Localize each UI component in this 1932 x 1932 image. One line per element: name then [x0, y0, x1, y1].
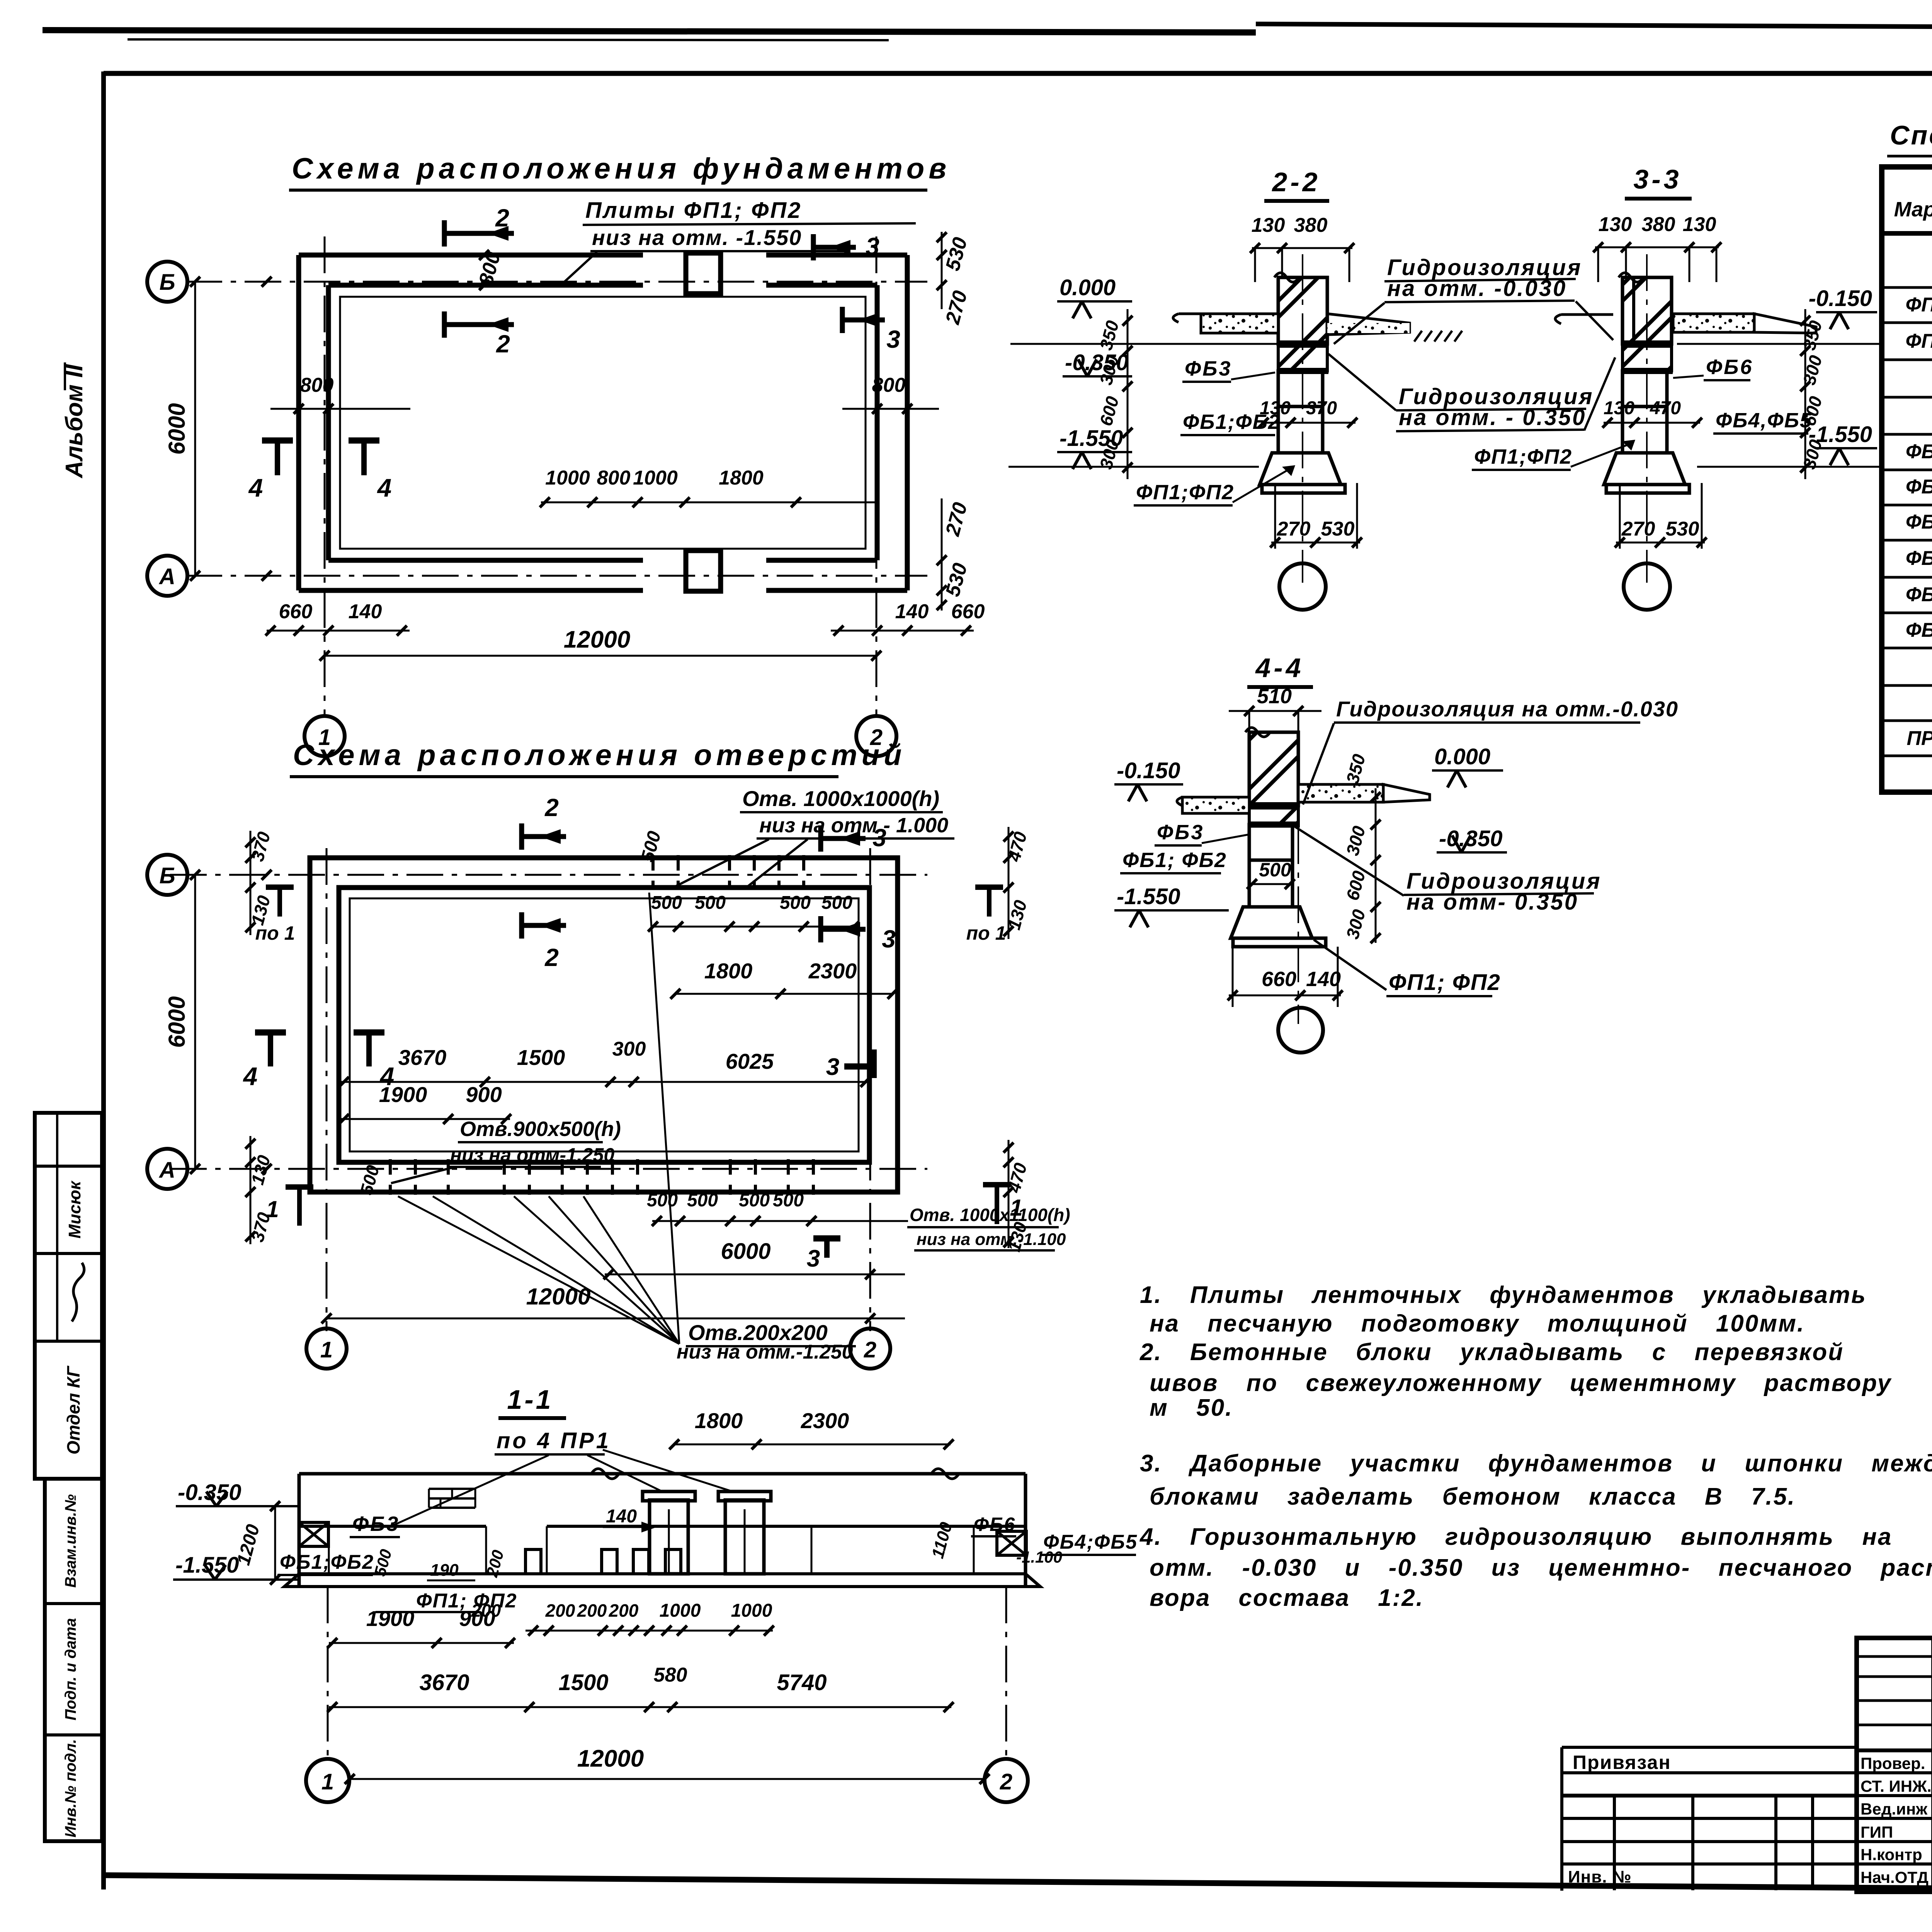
svg-text:Инв. №: Инв. № — [1568, 1867, 1632, 1886]
svg-text:ФП2: ФП2 — [1906, 330, 1932, 352]
svg-text:по 4 ПР1: по 4 ПР1 — [497, 1428, 611, 1453]
svg-text:0.000: 0.000 — [1434, 744, 1490, 769]
svg-text:500: 500 — [739, 1190, 770, 1211]
svg-text:Гидроизоляция на отм.-0.030: Гидроизоляция на отм.-0.030 — [1336, 697, 1679, 721]
svg-text:2: 2 — [544, 944, 559, 971]
svg-text:1900: 1900 — [366, 1606, 415, 1631]
svg-text:130: 130 — [1599, 213, 1632, 236]
svg-text:380: 380 — [1642, 213, 1675, 236]
svg-text:0.000: 0.000 — [1060, 275, 1116, 300]
svg-text:4: 4 — [377, 473, 392, 502]
svg-text:2300: 2300 — [808, 959, 857, 983]
svg-text:500: 500 — [1259, 859, 1291, 881]
svg-text:4. Горизонтальную гидроизоля: 4. Горизонтальную гидроизоляцию выполнят… — [1139, 1524, 1892, 1550]
svg-text:500: 500 — [773, 1190, 804, 1211]
svg-text:м 50.: м 50. — [1150, 1395, 1233, 1421]
svg-text:СТ. ИНЖ.: СТ. ИНЖ. — [1861, 1777, 1932, 1795]
svg-text:Б: Б — [159, 270, 175, 295]
svg-text:530: 530 — [1666, 518, 1699, 540]
svg-text:3: 3 — [872, 824, 886, 852]
svg-text:1800: 1800 — [719, 467, 764, 489]
svg-text:ГИП: ГИП — [1861, 1823, 1893, 1841]
svg-text:130: 130 — [1260, 398, 1291, 418]
svg-text:3: 3 — [882, 925, 896, 953]
svg-text:12000: 12000 — [577, 1745, 644, 1772]
svg-text:1500: 1500 — [558, 1670, 608, 1695]
svg-text:-0.350: -0.350 — [178, 1480, 241, 1505]
svg-text:140: 140 — [895, 600, 929, 623]
svg-text:ФБ4;ФБ5: ФБ4;ФБ5 — [1043, 1531, 1138, 1553]
svg-text:6000: 6000 — [164, 403, 190, 454]
svg-text:Отв.900х500(h): Отв.900х500(h) — [460, 1117, 621, 1141]
svg-text:Схема расположения фундаментов: Схема расположения фундаментов — [292, 152, 951, 185]
svg-text:низ на отм-1.250: низ на отм-1.250 — [450, 1144, 614, 1166]
svg-text:ФП1: ФП1 — [1906, 294, 1932, 316]
svg-text:2: 2 — [496, 330, 510, 358]
svg-text:660: 660 — [1262, 968, 1296, 991]
svg-text:3: 3 — [886, 325, 900, 353]
svg-text:500: 500 — [780, 893, 811, 913]
svg-text:500: 500 — [821, 893, 852, 913]
svg-text:800: 800 — [597, 467, 631, 489]
svg-text:А: А — [158, 564, 175, 589]
svg-text:1000: 1000 — [660, 1600, 701, 1621]
svg-text:2: 2 — [544, 794, 559, 821]
svg-text:300: 300 — [612, 1038, 646, 1060]
svg-text:по 1: по 1 — [966, 922, 1006, 944]
svg-text:1: 1 — [320, 1337, 333, 1362]
svg-text:ФБ1;ФБ2: ФБ1;ФБ2 — [280, 1551, 374, 1573]
svg-text:А: А — [158, 1158, 175, 1183]
svg-text:1000: 1000 — [731, 1600, 772, 1621]
svg-text:380: 380 — [1294, 214, 1328, 236]
svg-text:200: 200 — [545, 1600, 575, 1621]
svg-text:низ на отм.-1.100: низ на отм.-1.100 — [917, 1230, 1066, 1249]
svg-text:900: 900 — [466, 1082, 502, 1107]
svg-text:низ на отм. -1.550: низ на отм. -1.550 — [592, 225, 802, 250]
svg-text:ФБ3: ФБ3 — [1157, 821, 1204, 844]
svg-text:5740: 5740 — [777, 1670, 827, 1695]
svg-text:370: 370 — [1306, 398, 1337, 418]
svg-text:130: 130 — [1683, 213, 1716, 236]
svg-text:3670: 3670 — [398, 1045, 447, 1070]
svg-text:ФБ3: ФБ3 — [1185, 357, 1232, 380]
svg-text:4: 4 — [248, 473, 263, 502]
svg-text:130: 130 — [1604, 398, 1634, 418]
svg-text:-1.550: -1.550 — [175, 1553, 239, 1578]
svg-text:-1.550: -1.550 — [1117, 884, 1180, 909]
svg-text:4: 4 — [379, 1062, 395, 1090]
svg-text:-1.550: -1.550 — [1060, 426, 1123, 451]
svg-text:470: 470 — [1650, 398, 1681, 418]
svg-text:12000: 12000 — [564, 626, 630, 653]
svg-text:низ на отм.-1.250: низ на отм.-1.250 — [677, 1341, 853, 1363]
svg-text:швов по свежеуложенному цем: швов по свежеуложенному цементному раств… — [1150, 1370, 1892, 1396]
svg-text:ФБ3: ФБ3 — [352, 1512, 400, 1536]
svg-text:500: 500 — [647, 1190, 678, 1211]
svg-text:ФБ6: ФБ6 — [1706, 355, 1753, 379]
svg-text:1000: 1000 — [633, 467, 678, 489]
svg-text:1. Плиты ленточных фундаме: 1. Плиты ленточных фундаментов укладыват… — [1140, 1282, 1867, 1308]
svg-text:2: 2 — [495, 204, 509, 232]
svg-text:Нач.ОТД: Нач.ОТД — [1861, 1868, 1929, 1886]
svg-text:1500: 1500 — [517, 1045, 565, 1070]
svg-text:Отдел КГ: Отдел КГ — [63, 1366, 83, 1454]
svg-text:3670: 3670 — [419, 1670, 469, 1695]
svg-text:2300: 2300 — [801, 1408, 849, 1433]
svg-text:800: 800 — [872, 374, 906, 396]
svg-text:Взам.инв.№: Взам.инв.№ — [62, 1494, 79, 1588]
svg-text:-0.350: -0.350 — [1439, 826, 1502, 851]
svg-text:3: 3 — [866, 233, 879, 260]
svg-text:Подп. и дата: Подп. и дата — [62, 1618, 79, 1721]
svg-text:3-3: 3-3 — [1633, 164, 1682, 194]
svg-text:ФП1;ФП2: ФП1;ФП2 — [1136, 481, 1234, 504]
svg-text:1: 1 — [321, 1769, 334, 1794]
svg-text:ФП1; ФП2: ФП1; ФП2 — [1389, 970, 1501, 995]
svg-text:Спецификация к схеме распол: Спецификация к схеме расположения фундам… — [1890, 120, 1932, 150]
svg-text:на песчаную подготовку толщ: на песчаную подготовку толщиной 100мм. — [1150, 1310, 1805, 1337]
svg-text:2-2: 2-2 — [1271, 167, 1320, 197]
svg-text:Привязан: Привязан — [1573, 1752, 1671, 1773]
svg-text:Плиты ФП1; ФП2: Плиты ФП1; ФП2 — [585, 198, 802, 223]
svg-text:140: 140 — [1306, 968, 1341, 991]
svg-text:2: 2 — [1000, 1769, 1012, 1794]
svg-text:500: 500 — [687, 1190, 718, 1211]
svg-text:ФБ6: ФБ6 — [974, 1514, 1015, 1535]
svg-text:Отв. 1000х1000(h): Отв. 1000х1000(h) — [742, 786, 939, 811]
svg-text:130: 130 — [1252, 214, 1285, 236]
svg-text:12000: 12000 — [526, 1284, 591, 1310]
svg-text:270: 270 — [1621, 518, 1655, 540]
svg-text:Мисюк: Мисюк — [65, 1180, 84, 1238]
svg-text:580: 580 — [654, 1664, 687, 1686]
svg-text:-0.150: -0.150 — [1809, 286, 1872, 311]
svg-text:ФБ6: ФБ6 — [1906, 619, 1932, 641]
svg-text:140: 140 — [606, 1506, 637, 1527]
svg-text:6000: 6000 — [164, 996, 190, 1048]
svg-text:510: 510 — [1257, 685, 1292, 708]
svg-text:270: 270 — [1277, 518, 1311, 540]
svg-text:Марка: Марка — [1894, 198, 1932, 221]
svg-text:ПР1: ПР1 — [1906, 727, 1932, 750]
svg-text:1: 1 — [1010, 1195, 1022, 1221]
svg-text:1800: 1800 — [704, 959, 753, 983]
svg-text:200: 200 — [577, 1600, 607, 1621]
svg-text:ФБ3: ФБ3 — [1906, 511, 1932, 533]
svg-text:Н.контр: Н.контр — [1861, 1845, 1922, 1864]
svg-text:ФБ4,ФБ5: ФБ4,ФБ5 — [1716, 409, 1812, 432]
svg-text:3. Даборные участки фундамен: 3. Даборные участки фундаментов и шпонки… — [1140, 1450, 1932, 1477]
svg-text:по 1: по 1 — [255, 922, 295, 944]
svg-text:ФБ1; ФБ2: ФБ1; ФБ2 — [1122, 849, 1227, 872]
svg-text:1800: 1800 — [695, 1408, 743, 1433]
svg-text:6025: 6025 — [726, 1049, 774, 1073]
svg-text:660: 660 — [279, 600, 313, 623]
svg-text:3: 3 — [807, 1245, 820, 1272]
svg-text:вора состава 1:2.: вора состава 1:2. — [1150, 1585, 1424, 1611]
svg-text:200: 200 — [609, 1600, 639, 1621]
svg-text:-0.350: -0.350 — [1065, 350, 1128, 375]
svg-text:660: 660 — [951, 600, 985, 623]
svg-text:ФБ5: ФБ5 — [1906, 583, 1932, 606]
svg-text:2. Бетонные блоки укладывать: 2. Бетонные блоки укладывать с перевязко… — [1139, 1339, 1844, 1366]
svg-text:блоками заделать бетоном кл: блоками заделать бетоном класса В 7.5. — [1150, 1483, 1796, 1510]
svg-text:3: 3 — [826, 1054, 839, 1080]
svg-text:500: 500 — [695, 893, 726, 913]
svg-text:Провер.: Провер. — [1861, 1754, 1925, 1772]
svg-text:Инв.№ подл.: Инв.№ подл. — [62, 1739, 79, 1838]
svg-text:ФБ1: ФБ1 — [1906, 440, 1932, 463]
svg-text:-0.150: -0.150 — [1117, 758, 1180, 783]
svg-text:200: 200 — [471, 1600, 501, 1621]
svg-text:ФП1;ФП2: ФП1;ФП2 — [1474, 445, 1572, 468]
svg-text:1: 1 — [266, 1196, 279, 1222]
svg-text:500: 500 — [651, 893, 682, 913]
svg-text:Схема расположения отверстий: Схема расположения отверстий — [293, 739, 906, 772]
svg-text:Отв. 1000х1100(h): Отв. 1000х1100(h) — [910, 1205, 1070, 1225]
svg-text:6000: 6000 — [721, 1239, 770, 1264]
svg-text:ФБ4: ФБ4 — [1906, 547, 1932, 570]
svg-text:800: 800 — [300, 374, 334, 396]
svg-text:4: 4 — [243, 1062, 258, 1090]
svg-text:2: 2 — [864, 1337, 876, 1362]
svg-text:190: 190 — [430, 1561, 459, 1580]
svg-text:ФБ2: ФБ2 — [1906, 476, 1932, 498]
svg-text:140: 140 — [349, 600, 382, 623]
svg-text:отм. -0.030 и -0.350 из цем: отм. -0.030 и -0.350 из цементно- песчан… — [1150, 1554, 1932, 1581]
svg-text:1000: 1000 — [545, 467, 590, 489]
svg-text:4-4: 4-4 — [1255, 653, 1304, 683]
svg-text:-1.550: -1.550 — [1809, 422, 1872, 447]
svg-text:Вед.инж: Вед.инж — [1861, 1800, 1928, 1818]
svg-text:Б: Б — [159, 863, 175, 888]
svg-text:1-1: 1-1 — [507, 1384, 553, 1415]
svg-text:530: 530 — [1321, 518, 1355, 540]
